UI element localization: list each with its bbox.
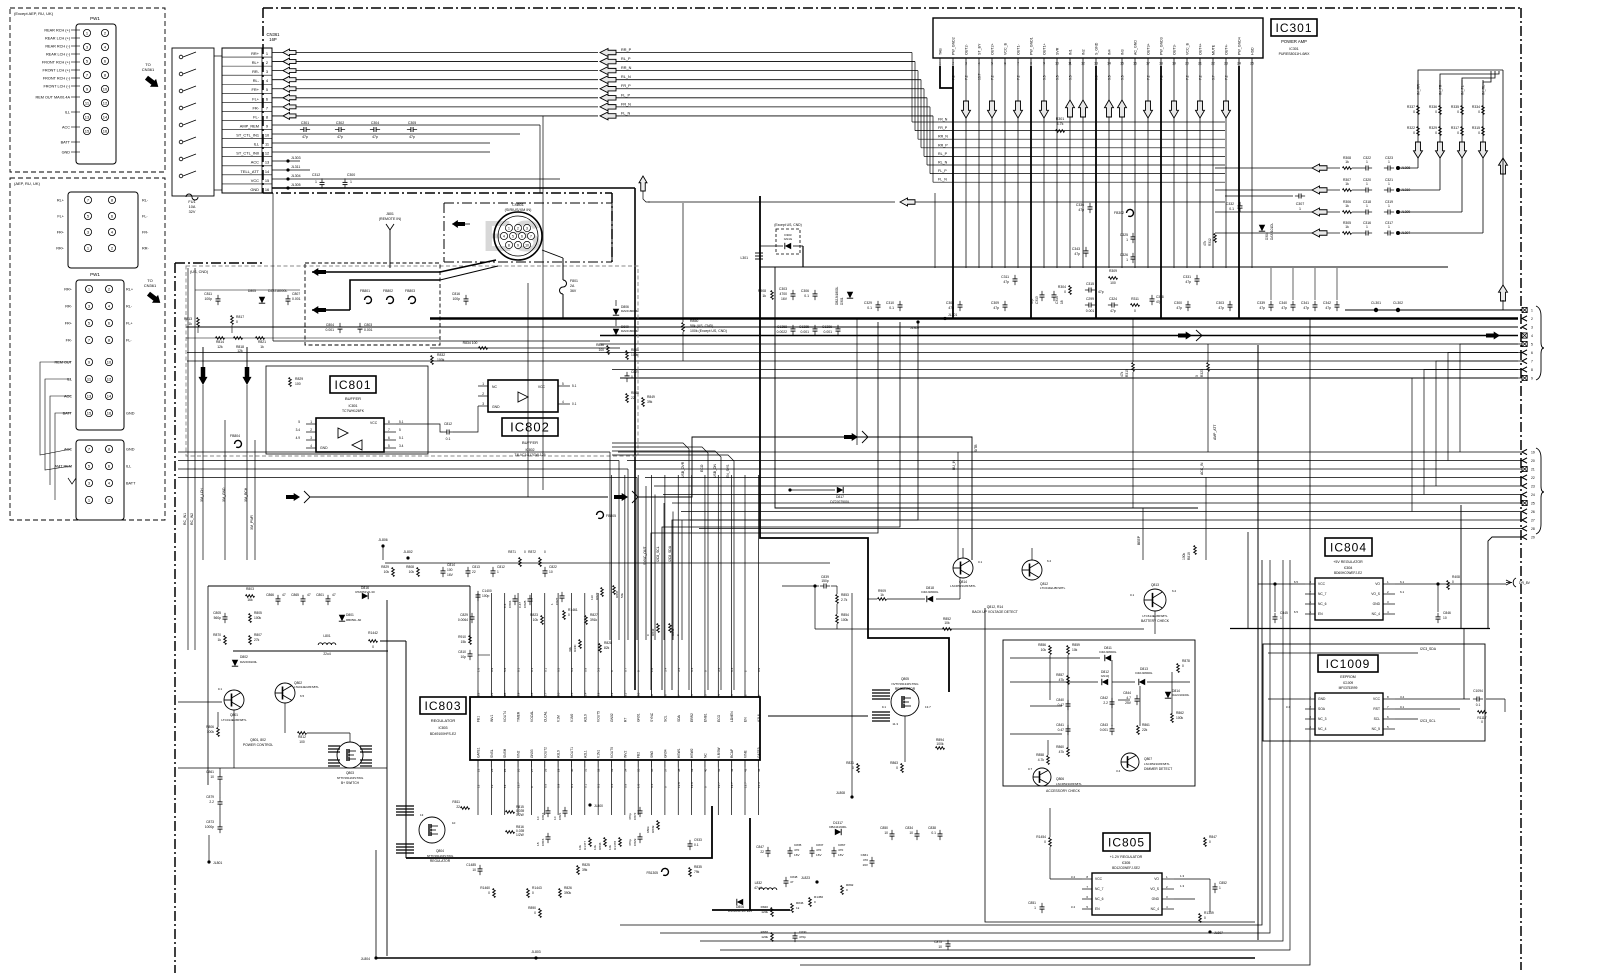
svg-text:6.2: 6.2: [1047, 559, 1052, 563]
wire bus row5: [600, 343, 1518, 345]
signal arrow XM in 2: [312, 306, 326, 314]
IC1009 pin 8 VCC: [1383, 698, 1395, 700]
svg-text:7.2: 7.2: [1225, 75, 1229, 80]
svg-text:REM OUT: REM OUT: [54, 361, 72, 365]
svg-text:BATTERY CHECK: BATTERY CHECK: [1141, 619, 1170, 623]
thick XM wires: [350, 280, 440, 310]
svg-text:5: 5: [399, 428, 401, 432]
Q804 coil bars: [396, 805, 414, 807]
svg-text:C873: C873: [206, 820, 214, 824]
inductor L801: [318, 643, 336, 645]
capacitor C829b: [638, 836, 643, 838]
svg-text:LSCR523U8FS8TL: LSCR523U8FS8TL: [950, 584, 976, 588]
svg-text:ECO: ECO: [700, 464, 704, 472]
svg-text:7: 7: [677, 694, 681, 696]
svg-text:47p: 47p: [1030, 298, 1034, 304]
svg-text:9: 9: [650, 694, 654, 696]
svg-text:15: 15: [85, 129, 90, 134]
svg-text:R856: R856: [1038, 643, 1046, 647]
svg-text:ST_BY: ST_BY: [978, 43, 982, 55]
connector PW1 pin 1: [83, 29, 90, 36]
svg-text:1: 1: [315, 180, 317, 184]
jumper CL301: [1374, 308, 1378, 312]
svg-text:14: 14: [1107, 62, 1111, 66]
svg-text:R890: R890: [528, 906, 536, 910]
svg-text:C816: C816: [541, 812, 545, 820]
jumper JL309: [1396, 210, 1400, 214]
svg-text:5: 5: [298, 420, 300, 424]
svg-text:1: 1: [1366, 225, 1368, 229]
svg-text:0.9: 0.9: [490, 667, 494, 672]
connector PW1(AEP) pin 11: [85, 375, 92, 382]
capacitor C822: [543, 570, 548, 572]
svg-text:DZ2J18000L: DZ2J18000L: [921, 590, 939, 594]
svg-text:L832: L832: [755, 881, 763, 885]
terminal pin 23 right edge: [1522, 483, 1527, 488]
svg-text:1: 1: [1388, 160, 1390, 164]
svg-text:4: 4: [266, 78, 269, 83]
svg-text:8: 8: [111, 198, 114, 203]
svg-text:47p: 47p: [993, 306, 999, 310]
IC801 pin 3: [306, 439, 316, 441]
CN801 dash-dot outline box: [444, 202, 612, 204]
capacitor C318: [1365, 210, 1367, 215]
terminal pin 2 right edge: [1522, 316, 1527, 321]
resistor R317: [1461, 127, 1464, 136]
svg-text:6: 6: [104, 59, 107, 64]
signal arrow bus row4 right: [1486, 332, 1500, 340]
capacitor C843: [1110, 728, 1115, 730]
svg-text:0: 0: [1064, 290, 1066, 294]
svg-text:13.7: 13.7: [744, 782, 748, 788]
svg-text:1k: 1k: [1345, 182, 1349, 186]
svg-text:FRONT LCH (+): FRONT LCH (+): [43, 69, 71, 73]
wire rail above IC803: [385, 562, 830, 564]
signal arrow down XM L: [199, 367, 208, 385]
svg-text:SOA: SOA: [1318, 707, 1326, 711]
signal arrow down IN_FL: [1458, 142, 1467, 158]
svg-text:0: 0: [646, 634, 650, 636]
svg-text:C1094: C1094: [1473, 689, 1483, 693]
capacitor C321: [1387, 188, 1389, 193]
svg-text:FB1: FB1: [477, 716, 481, 722]
svg-text:4: 4: [108, 304, 111, 309]
svg-text:1k: 1k: [762, 294, 766, 298]
capacitor C317: [1387, 231, 1389, 236]
svg-text:C303: C303: [779, 287, 787, 291]
svg-text:6: 6: [266, 96, 268, 101]
svg-text:CN361: CN361: [144, 283, 157, 288]
wire IN_RL down: [1482, 158, 1484, 233]
svg-text:Q804: Q804: [436, 849, 444, 853]
svg-text:0: 0: [1435, 110, 1437, 114]
IC801 pin 7: [384, 431, 396, 433]
svg-text:HSW1: HSW1: [677, 748, 681, 758]
resistor R1477: [589, 838, 592, 847]
svg-text:0: 0: [1457, 131, 1459, 135]
svg-text:7: 7: [530, 234, 532, 238]
wire FL_P to IC301: [616, 97, 927, 99]
svg-text:JL801: JL801: [213, 861, 222, 865]
main unit boundary (dash-dot frame right): [1520, 8, 1522, 970]
wire IC301 pin 15: [1121, 66, 1123, 268]
svg-text:0: 0: [1478, 110, 1480, 114]
transistor Q807: [1121, 753, 1139, 771]
svg-text:C313: C313: [1035, 296, 1039, 304]
svg-text:31: 31: [583, 768, 587, 772]
svg-text:10: 10: [107, 360, 112, 365]
capacitor C325: [1131, 236, 1136, 238]
svg-text:FR_P: FR_P: [621, 84, 631, 88]
connector PW1 pin 9: [83, 85, 90, 92]
svg-text:GN02: GN02: [610, 713, 614, 722]
svg-text:JL305: JL305: [291, 183, 301, 187]
svg-text:LTC044EU8FS8TL: LTC044EU8FS8TL: [1040, 586, 1066, 590]
resistor R822: [601, 588, 604, 597]
ISO upper pin 7: [84, 196, 91, 203]
svg-text:10k: 10k: [409, 570, 415, 574]
svg-text:OUT1-: OUT1-: [1017, 43, 1021, 55]
svg-text:ILL: ILL: [126, 465, 131, 469]
svg-text:100: 100: [598, 348, 604, 352]
svg-text:NC_4: NC_4: [1318, 727, 1327, 731]
IC1009 pin 3 NC_3: [1305, 718, 1315, 720]
ISO upper pin 2: [108, 244, 115, 251]
signal arrow up feedback column: [1502, 70, 1504, 142]
svg-text:3.4: 3.4: [717, 667, 721, 672]
svg-text:IC802: IC802: [510, 420, 550, 435]
svg-text:RB050L-60: RB050L-60: [346, 618, 362, 622]
IC804 pin 2 VO_S: [1383, 593, 1395, 595]
svg-text:391k: 391k: [590, 618, 598, 622]
svg-text:10: 10: [472, 868, 476, 872]
svg-text:390k: 390k: [564, 891, 572, 895]
capacitor C315: [1088, 288, 1090, 293]
svg-text:ILL: ILL: [254, 142, 260, 147]
(US,CND) section grey dashed box: [186, 266, 638, 456]
svg-text:47k: 47k: [1059, 750, 1065, 754]
resistor R1442: [369, 640, 378, 643]
svg-text:RL_P: RL_P: [621, 57, 631, 61]
svg-text:C1386: C1386: [822, 325, 832, 329]
svg-text:SDA: SDA: [677, 714, 681, 722]
svg-text:VCC: VCC: [538, 385, 546, 389]
svg-text:R811: R811: [452, 800, 460, 804]
resistor R856: [1049, 646, 1052, 655]
svg-text:1k: 1k: [218, 638, 222, 642]
connector PW1 pin 6: [101, 57, 108, 64]
capacitor C309: [1003, 304, 1008, 306]
svg-text:47p: 47p: [1176, 306, 1182, 310]
svg-text:1: 1: [1126, 238, 1128, 242]
svg-text:5: 5: [991, 62, 993, 66]
svg-text:VCC: VCC: [1373, 697, 1381, 701]
resistor R871: [519, 558, 522, 567]
resistor R831b: [431, 356, 434, 365]
svg-text:R828: R828: [604, 641, 612, 645]
svg-text:0: 0: [568, 613, 570, 617]
signal arrow row R306: [1312, 208, 1327, 216]
svg-text:11.3: 11.3: [892, 722, 898, 726]
svg-text:IN_FL: IN_FL: [1461, 85, 1465, 95]
svg-text:NTTFS5116PLTWG: NTTFS5116PLTWG: [427, 854, 454, 858]
svg-text:1.3: 1.3: [1180, 874, 1185, 878]
svg-text:2: 2: [1166, 885, 1168, 889]
svg-text:2: 2: [1309, 705, 1311, 709]
resistor R823: [541, 616, 544, 625]
wire top rail power section: [208, 585, 470, 587]
svg-text:L801: L801: [323, 634, 331, 638]
IC803 bottom pin 29 A3L0: [557, 760, 559, 767]
svg-text:C829: C829: [460, 613, 468, 617]
svg-text:4: 4: [111, 230, 114, 235]
svg-text:47p: 47p: [948, 306, 954, 310]
jumper JL807: [1208, 930, 1211, 933]
connector PW1 pin 3: [83, 43, 90, 50]
svg-text:R859: R859: [1072, 643, 1080, 647]
resistor R1450: [809, 898, 812, 907]
capacitor C336: [1088, 206, 1093, 208]
svg-text:RR-: RR-: [252, 69, 260, 74]
svg-text:C851: C851: [1028, 901, 1036, 905]
svg-text:37: 37: [663, 768, 667, 772]
svg-text:0.9: 0.9: [557, 783, 561, 788]
signal arrow mid right: [844, 433, 858, 441]
svg-text:Q813: Q813: [1151, 583, 1159, 587]
svg-text:3.4: 3.4: [1286, 705, 1291, 709]
svg-text:R309: R309: [1109, 269, 1117, 273]
CN361 row GND pin 16: [222, 183, 272, 185]
wire bundle verticals mid: [609, 452, 611, 640]
IC803 bottom pin 23 GATE1: [477, 760, 479, 767]
capacitor C305: [410, 127, 412, 132]
svg-text:R839: R839: [651, 825, 655, 833]
svg-text:8: 8: [108, 447, 111, 452]
svg-text:3: 3: [965, 62, 967, 66]
svg-text:0.1: 0.1: [889, 306, 894, 310]
IC803 bottom pin 27 GN03: [530, 760, 532, 767]
svg-text:1: 1: [1219, 886, 1221, 890]
svg-text:6: 6: [388, 436, 390, 440]
svg-text:100k: 100k: [1182, 552, 1186, 560]
connector PW1(AEP) pin 4: [105, 302, 112, 309]
svg-text:C1358: C1358: [777, 325, 787, 329]
terminal pin 4 right edge: [1522, 333, 1527, 338]
svg-text:C845: C845: [1280, 611, 1288, 615]
svg-text:0.1: 0.1: [543, 667, 547, 672]
svg-text:7: 7: [87, 198, 90, 203]
svg-text:10k: 10k: [533, 618, 539, 622]
svg-text:3.5: 3.5: [1121, 75, 1125, 80]
svg-text:100k: 100k: [936, 742, 944, 746]
svg-text:18: 18: [530, 692, 534, 696]
svg-text:BEEP: BEEP: [1137, 535, 1141, 545]
resistor R878: [1177, 664, 1180, 673]
svg-text:1k: 1k: [880, 593, 884, 597]
IC803 bottom pin 28 VOUT2: [544, 760, 546, 767]
resistor R870: [224, 636, 227, 645]
svg-text:18: 18: [1159, 62, 1163, 66]
svg-text:C325: C325: [1120, 233, 1128, 237]
diode D813: [1139, 679, 1145, 685]
svg-text:VOUT5: VOUT5: [597, 711, 601, 722]
capacitor C1094: [1476, 697, 1478, 702]
svg-text:C803: C803: [364, 323, 372, 327]
svg-text:C830: C830: [799, 930, 807, 934]
svg-text:C838: C838: [928, 826, 936, 830]
bracket terminal group A: [1536, 306, 1544, 380]
resistor R859: [1067, 646, 1070, 655]
svg-text:RL-: RL-: [126, 305, 133, 309]
capacitor C816b: [546, 810, 551, 812]
svg-text:16: 16: [265, 187, 269, 192]
svg-text:6.5: 6.5: [1294, 610, 1299, 614]
capacitor C844: [1135, 698, 1140, 700]
svg-text:1: 1: [1388, 225, 1390, 229]
svg-text:39k: 39k: [647, 400, 653, 404]
svg-text:ENB1: ENB1: [703, 713, 707, 722]
wires battery cluster: [782, 585, 819, 587]
svg-text:0: 0: [488, 891, 490, 895]
svg-text:C339: C339: [1257, 301, 1265, 305]
svg-text:6: 6: [108, 321, 111, 326]
signal arrow RR_P at CN361: [283, 49, 296, 56]
terminal pin 24 right edge: [1522, 492, 1527, 497]
wire IC301 pin 20: [1186, 66, 1188, 268]
svg-text:FR_P: FR_P: [938, 126, 948, 130]
svg-text:26: 26: [517, 768, 521, 772]
svg-text:EN_SYS: EN_SYS: [726, 464, 730, 478]
svg-text:GND: GND: [250, 187, 259, 192]
svg-text:R336: R336: [1429, 105, 1437, 109]
ferrite bead FB801: [364, 296, 371, 303]
capacitor C310: [898, 304, 903, 306]
svg-text:C831: C831: [861, 853, 869, 857]
IC805 pin 2 VO_S: [1162, 888, 1174, 890]
svg-text:16V: 16V: [781, 297, 788, 301]
svg-text:3: 3: [88, 304, 91, 309]
svg-text:R408: R408: [1452, 575, 1460, 579]
svg-text:22: 22: [456, 805, 460, 809]
svg-text:RR_N: RR_N: [621, 66, 632, 70]
resistor R835: [689, 868, 692, 877]
resistor R833: [604, 838, 607, 847]
wire bus row7: [187, 360, 1518, 362]
capacitor C308: [958, 304, 963, 306]
svg-text:27: 27: [530, 768, 534, 772]
capacitor C806: [513, 598, 518, 600]
svg-text:0: 0: [846, 888, 848, 892]
CN801 pin 4: [500, 232, 507, 239]
svg-text:14: 14: [107, 394, 112, 399]
svg-text:LD#EN: LD#EN: [730, 711, 734, 722]
resistor R818: [234, 337, 243, 340]
wire RR_N to IC301: [616, 70, 918, 72]
IC803 top pin 3 LD#EN: [731, 690, 733, 697]
svg-text:13: 13: [503, 784, 507, 788]
svg-text:INV2: INV2: [623, 751, 627, 758]
resistor R301: [1056, 130, 1065, 133]
zener D802: [232, 660, 238, 666]
svg-text:8: 8: [663, 694, 667, 696]
CN801 pin 5: [509, 232, 516, 239]
svg-text:16V: 16V: [862, 863, 868, 867]
wire shield row: [273, 340, 610, 342]
svg-text:3: 3: [87, 230, 90, 235]
svg-text:R930: R930: [573, 644, 577, 652]
svg-text:44: 44: [757, 768, 761, 772]
svg-text:R1454: R1454: [1036, 835, 1046, 839]
resistor R310: [1132, 363, 1135, 372]
signal arrow FL_P: [600, 94, 616, 102]
svg-text:0: 0: [1204, 916, 1206, 920]
svg-text:FR+: FR+: [57, 231, 65, 235]
resistor R304: [1069, 286, 1072, 295]
inner dashed box XM input filter: [305, 263, 440, 345]
svg-text:IN4: IN4: [1108, 49, 1112, 55]
svg-text:0: 0: [1209, 840, 1211, 844]
svg-text:D817: D817: [836, 495, 844, 499]
svg-text:R835: R835: [694, 865, 702, 869]
resistor R336: [1439, 106, 1442, 115]
svg-text:C331: C331: [1183, 275, 1191, 279]
svg-text:C301: C301: [301, 121, 309, 125]
resistor R848: [626, 394, 629, 403]
connector PW1 pin 11: [83, 99, 90, 106]
svg-text:23: 23: [477, 768, 481, 772]
svg-text:RR_N: RR_N: [938, 135, 948, 139]
CN801 pin 6: [518, 232, 525, 239]
svg-text:5.1: 5.1: [399, 436, 404, 440]
svg-text:0.1: 0.1: [631, 375, 636, 379]
svg-text:IN_RL: IN_RL: [1482, 85, 1486, 95]
svg-text:2: 2: [111, 246, 114, 251]
signal arrow down IN_RL: [1479, 142, 1488, 158]
svg-text:0.47: 0.47: [1058, 703, 1065, 707]
wire IC301 pin 2: [952, 66, 954, 318]
svg-text:JL803: JL803: [531, 950, 540, 954]
capacitor C865: [301, 598, 306, 600]
svg-text:C308: C308: [946, 301, 954, 305]
svg-text:58k (US, CND): 58k (US, CND): [690, 324, 713, 328]
svg-text:R825: R825: [582, 863, 590, 867]
wire Q804 source thick: [406, 806, 712, 858]
capacitor C933: [688, 843, 693, 845]
svg-text:R317: R317: [1451, 126, 1459, 130]
svg-text:GND: GND: [1318, 697, 1326, 701]
wire IC801 outputs: [396, 396, 478, 424]
capacitor C828: [528, 598, 533, 600]
svg-text:C807: C807: [292, 292, 300, 296]
svg-text:B+ SWITCH: B+ SWITCH: [341, 781, 360, 785]
capacitor C300: [343, 181, 348, 183]
wire vertical x528: [527, 283, 529, 497]
svg-text:0.7: 0.7: [623, 667, 627, 672]
svg-text:IC803: IC803: [438, 726, 447, 730]
IC803 top pin 4 ECO: [717, 690, 719, 697]
IC802 pin 3: [478, 405, 488, 407]
signal arrow down IC301 pin 21: [1196, 101, 1205, 118]
terminal pin 1 right edge: [1522, 307, 1527, 312]
svg-text:C848: C848: [790, 875, 798, 879]
connector PW1(AEP) pin 2: [105, 285, 112, 292]
svg-text:JL307: JL307: [1401, 231, 1410, 235]
signal arrow down IC301 pin 7: [1014, 101, 1023, 118]
wire supply bus: [760, 266, 1448, 268]
signal arrow up right edge: [1499, 285, 1508, 301]
svg-text:R872: R872: [528, 550, 536, 554]
signal arrow J801: [452, 220, 465, 228]
